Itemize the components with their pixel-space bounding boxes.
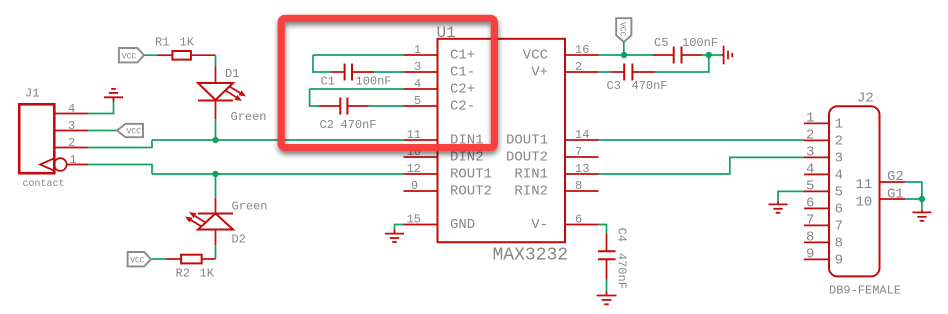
- svg-text:RIN1: RIN1: [514, 167, 548, 183]
- svg-text:U1: U1: [437, 24, 456, 42]
- svg-text:6: 6: [806, 196, 814, 212]
- wire junction to ground: [921, 199, 923, 210]
- J2 pin 9: [804, 247, 843, 269]
- wire C4 to ground: [606, 280, 608, 292]
- U1 pin 10 DIN2: [404, 145, 484, 166]
- U1 pin 9 ROUT2: [404, 179, 493, 200]
- wire C1 to U1 pin3: [374, 71, 404, 73]
- svg-text:R1: R1: [155, 36, 169, 50]
- U1 pin 2 V+: [531, 60, 598, 81]
- ground at U1 pin 15: [385, 230, 404, 243]
- svg-text:12: 12: [407, 162, 421, 176]
- resistor R2: [166, 255, 216, 281]
- wire ROUT1 net to D2: [215, 174, 217, 198]
- LED D1: [198, 67, 267, 125]
- svg-text:7: 7: [806, 213, 814, 229]
- wire C2 to U1 pin5: [369, 105, 404, 107]
- svg-text:3: 3: [414, 60, 421, 74]
- svg-text:4: 4: [835, 168, 843, 184]
- svg-text:C2+: C2+: [450, 82, 475, 98]
- red highlight annotation box: [281, 18, 494, 147]
- svg-text:DOUT1: DOUT1: [506, 133, 548, 149]
- svg-text:4: 4: [68, 102, 75, 116]
- wire G1 to junction: [905, 198, 922, 200]
- svg-text:3: 3: [806, 145, 814, 161]
- svg-text:6: 6: [835, 202, 843, 218]
- svg-text:13: 13: [575, 162, 589, 176]
- junction VCC symbol: [621, 52, 627, 58]
- svg-text:470nF: 470nF: [614, 253, 628, 289]
- svg-text:1K: 1K: [180, 36, 195, 50]
- J2 pin 8: [804, 230, 843, 252]
- svg-text:R2: R2: [176, 267, 190, 281]
- ground at J1 pin 4: [104, 89, 123, 102]
- wire C3 to VCC junction: [655, 55, 708, 72]
- svg-text:MAX3232: MAX3232: [493, 246, 569, 266]
- svg-text:GND: GND: [450, 217, 475, 233]
- J2 pin 3: [804, 145, 843, 167]
- svg-text:4: 4: [414, 77, 421, 91]
- svg-text:9: 9: [806, 247, 814, 263]
- wire RIN1 to J2 pin3: [599, 157, 805, 174]
- svg-text:15: 15: [407, 213, 421, 227]
- U1 pin 3 C1-: [404, 60, 476, 81]
- svg-text:C2-: C2-: [450, 99, 475, 115]
- VCC supply label at R2: [128, 252, 151, 266]
- wire D2 to R2: [215, 245, 217, 259]
- connector J2 body: [829, 91, 901, 298]
- wire VCC to R1: [144, 54, 157, 56]
- svg-text:5: 5: [806, 179, 814, 195]
- svg-text:C4: C4: [614, 228, 628, 242]
- svg-text:contact: contact: [23, 179, 65, 190]
- svg-text:5: 5: [414, 94, 421, 108]
- svg-text:ROUT1: ROUT1: [450, 167, 492, 183]
- capacitor C3: [599, 64, 668, 94]
- U1 pin 16 VCC: [523, 43, 599, 64]
- J2 pin 7: [804, 213, 843, 235]
- svg-text:11: 11: [856, 177, 873, 193]
- wire R2 to VCC: [151, 258, 166, 260]
- U1 pin 15 GND: [403, 213, 476, 234]
- J1 pin 4: [54, 102, 88, 116]
- svg-text:470nF: 470nF: [632, 79, 668, 93]
- svg-text:3: 3: [835, 151, 843, 167]
- svg-text:10: 10: [856, 195, 873, 211]
- junction C5/ground: [706, 52, 712, 58]
- svg-text:1K: 1K: [200, 267, 215, 281]
- svg-text:100nF: 100nF: [356, 75, 392, 89]
- svg-text:8: 8: [835, 236, 843, 252]
- wire V- to C4: [599, 225, 607, 234]
- svg-text:6: 6: [575, 213, 582, 227]
- svg-text:9: 9: [411, 179, 418, 193]
- wire DOUT1 to J2 pin2: [599, 139, 805, 141]
- ground below C4: [597, 292, 617, 305]
- junction G1/G2: [919, 196, 925, 202]
- svg-text:2: 2: [835, 134, 843, 150]
- capacitor C2: [310, 89, 377, 132]
- J2 pin 6: [804, 196, 843, 218]
- U1 pin 12 ROUT1: [404, 162, 493, 183]
- svg-text:C1-: C1-: [450, 65, 475, 81]
- wire J1 pin1 to ROUT1 net: [88, 165, 152, 175]
- U1 pin 7 DOUT2: [506, 145, 599, 166]
- U1 pin 6 V-: [531, 213, 598, 234]
- wire U1 GND to ground: [395, 225, 403, 230]
- J1 pin 2: [54, 136, 88, 150]
- svg-text:C3: C3: [607, 79, 621, 93]
- capacitor C1: [313, 55, 392, 89]
- svg-text:16: 16: [575, 43, 589, 57]
- wire C1 to U1 pin1: [313, 54, 404, 56]
- J2 pin 4: [804, 162, 843, 184]
- svg-text:V+: V+: [531, 65, 548, 81]
- ground at J2 pin 5: [769, 201, 788, 213]
- svg-text:C5: C5: [654, 36, 668, 50]
- junction ROUT1/D2: [212, 171, 218, 177]
- svg-text:D2: D2: [232, 233, 246, 247]
- connector J1 body: [19, 87, 64, 191]
- wire R1 to D1: [215, 55, 217, 66]
- J2 pin 11 G2: [856, 169, 906, 193]
- junction DIN1/D1: [212, 137, 218, 143]
- svg-text:4: 4: [806, 162, 814, 178]
- svg-text:2: 2: [575, 60, 582, 74]
- svg-text:D1: D1: [225, 67, 239, 81]
- svg-text:3: 3: [68, 119, 75, 133]
- svg-text:J1: J1: [25, 87, 39, 101]
- svg-text:14: 14: [575, 128, 589, 142]
- U1 pin 1 C1+: [404, 43, 476, 64]
- svg-text:ROUT2: ROUT2: [450, 184, 492, 200]
- VCC supply label at R1: [119, 48, 144, 62]
- svg-text:VCC: VCC: [523, 48, 548, 64]
- J1 pin 3: [54, 119, 88, 133]
- J2 pin 5: [804, 179, 843, 201]
- svg-text:V-: V-: [531, 217, 548, 233]
- svg-text:VCC: VCC: [122, 52, 137, 61]
- wire D1 to DIN1 net: [215, 119, 217, 140]
- svg-text:C2: C2: [320, 118, 334, 132]
- svg-text:7: 7: [575, 145, 582, 159]
- wire J1 pin2 to DIN1 net: [88, 140, 152, 148]
- ground below G1: [912, 210, 931, 221]
- wire VCC label to junction: [623, 42, 625, 55]
- U1 pin 8 RIN2: [514, 179, 598, 200]
- wire J2 pin5 to ground: [778, 191, 804, 201]
- svg-text:470nF: 470nF: [341, 118, 377, 132]
- svg-text:DOUT2: DOUT2: [506, 150, 548, 166]
- svg-text:C1: C1: [321, 75, 335, 89]
- svg-text:C1+: C1+: [450, 48, 475, 64]
- U1 pin 5 C2-: [404, 94, 476, 115]
- svg-text:7: 7: [835, 219, 843, 235]
- U1 pin 13 RIN1: [514, 162, 598, 183]
- svg-text:1: 1: [414, 43, 421, 57]
- wire G2 to G1 junction: [905, 182, 922, 199]
- svg-text:Green: Green: [232, 200, 268, 214]
- svg-text:100nF: 100nF: [682, 36, 718, 50]
- J2 pin 2: [804, 128, 843, 150]
- svg-text:J2: J2: [857, 91, 874, 107]
- svg-text:11: 11: [407, 128, 421, 142]
- capacitor C5: [653, 36, 718, 64]
- J2 pin 1: [804, 111, 843, 133]
- U1 pin 14 DOUT1: [506, 128, 599, 149]
- wire junction to right ground: [709, 54, 722, 56]
- U1 pin 4 C2+: [404, 77, 476, 98]
- svg-text:G2: G2: [887, 169, 904, 185]
- LED D2: [185, 198, 268, 247]
- wire C2 to U1 pin4: [310, 88, 404, 90]
- svg-text:Green: Green: [231, 110, 267, 124]
- svg-text:9: 9: [835, 253, 843, 269]
- svg-text:DB9-FEMALE: DB9-FEMALE: [829, 284, 901, 298]
- wire VCC net from U1 pin16: [599, 54, 654, 56]
- J1 pin 1 contact symbol: [40, 153, 88, 171]
- svg-text:VCC: VCC: [130, 256, 145, 265]
- U1 pin 11 DIN1: [404, 128, 484, 149]
- J2 pin 10 G1: [856, 187, 906, 211]
- svg-text:2: 2: [68, 136, 75, 150]
- ROUT1 net wire: [152, 173, 404, 175]
- ground right of C5: [722, 46, 732, 65]
- wire J1 pin3 to VCC label: [88, 130, 117, 132]
- svg-text:2: 2: [806, 128, 814, 144]
- svg-text:DIN2: DIN2: [450, 150, 484, 166]
- svg-text:RIN2: RIN2: [514, 184, 548, 200]
- wire C5 to ground junction: [702, 54, 709, 56]
- wire J1 pin4 to ground: [88, 102, 114, 114]
- VCC supply label top right: [616, 18, 631, 42]
- svg-text:1: 1: [806, 111, 814, 127]
- svg-text:1: 1: [70, 153, 77, 167]
- svg-text:8: 8: [575, 179, 582, 193]
- svg-text:G1: G1: [887, 187, 904, 203]
- svg-text:VCC: VCC: [127, 128, 142, 137]
- VCC supply label at J1 pin 3: [117, 124, 143, 137]
- op-amp U1 MAX3232 body: [437, 24, 569, 266]
- svg-text:VCC: VCC: [618, 22, 627, 37]
- resistor R1: [155, 36, 216, 60]
- svg-text:8: 8: [806, 230, 814, 246]
- svg-text:5: 5: [835, 185, 843, 201]
- DIN1 net wire: [152, 139, 404, 141]
- svg-text:1: 1: [835, 117, 843, 133]
- capacitor C4: [598, 228, 628, 289]
